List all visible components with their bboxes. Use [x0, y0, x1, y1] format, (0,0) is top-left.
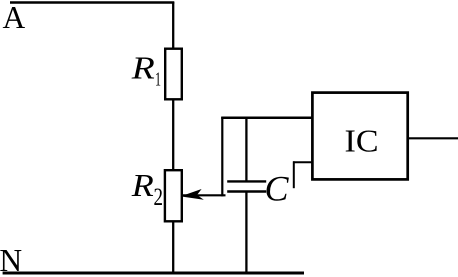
wire horizontal node to IC input: [221, 117, 312, 120]
wire from top rail down to R1: [172, 2, 174, 49]
svg-text:N: N: [0, 243, 22, 277]
svg-text:2: 2: [154, 184, 164, 211]
IC box U1: [312, 93, 407, 180]
resistor R2 (potentiometer body): [165, 170, 182, 221]
wire R1 to R2: [172, 99, 174, 171]
capacitor C top plate: [227, 180, 266, 182]
wire R2 to bottom rail: [172, 221, 174, 273]
wire IC second pin vertical stub down beside C: [293, 161, 295, 188]
svg-text:A: A: [3, 0, 26, 35]
svg-text:R: R: [131, 49, 156, 85]
wire bottom rail (neutral line): [3, 272, 304, 275]
wire capacitor bottom lead to bottom rail: [245, 192, 247, 274]
wire capacitor top lead: [245, 117, 247, 182]
svg-text:1: 1: [155, 68, 161, 90]
wire top rail (phase line): [10, 1, 174, 4]
capacitor C bottom plate: [227, 190, 266, 192]
svg-text:C: C: [265, 169, 290, 209]
wire IC second pin horizontal: [293, 161, 312, 163]
wiper arrow shaft of R2: [183, 194, 226, 196]
wire IC output to right edge: [408, 137, 458, 139]
svg-text:R: R: [131, 167, 155, 203]
wire vertical from wiper line up to top node: [221, 117, 223, 196]
resistor R1: [165, 49, 182, 100]
svg-text:IC: IC: [345, 123, 379, 159]
wiper arrowhead pointing at R2: [180, 189, 204, 201]
